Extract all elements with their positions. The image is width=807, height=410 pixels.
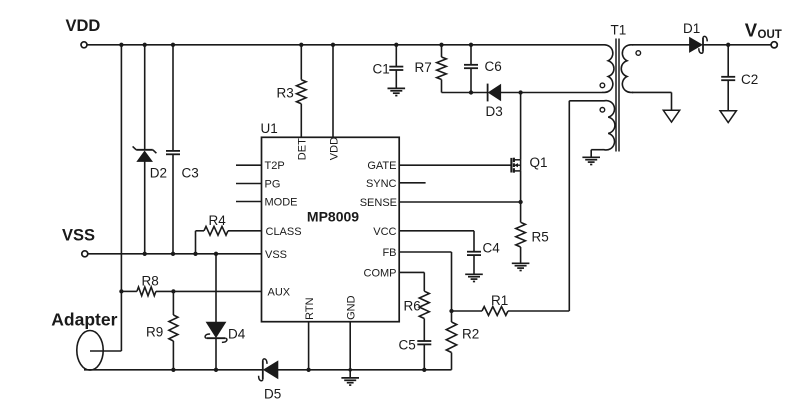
capacitor C6 xyxy=(464,45,502,93)
wire bottom rail right xyxy=(278,369,452,371)
pin label GATE xyxy=(367,160,396,172)
pin label RTN xyxy=(304,297,316,319)
capacitor C3 xyxy=(166,45,199,254)
ground under GND pin xyxy=(341,378,359,385)
svg-text:MODE: MODE xyxy=(265,197,298,209)
node AUX-adapter junction xyxy=(119,289,123,293)
resistor R1 xyxy=(452,293,570,315)
svg-text:R5: R5 xyxy=(532,230,549,245)
ground under R5 xyxy=(512,263,530,270)
wire D1 to VOUT xyxy=(703,44,771,46)
capacitor C2 xyxy=(721,45,758,111)
resistor R5 xyxy=(516,202,549,263)
svg-text:RTN: RTN xyxy=(304,297,316,319)
pin label COMP xyxy=(364,267,397,279)
node R9 top junction xyxy=(171,289,175,293)
svg-text:D1: D1 xyxy=(683,21,700,36)
diode D1 xyxy=(683,21,707,53)
diode D4 xyxy=(205,322,246,342)
wire snubber bottom xyxy=(442,92,488,94)
node D2 bottom xyxy=(143,252,147,256)
wire adapter to VDD rail xyxy=(90,45,121,351)
wire pin PG stub xyxy=(236,183,262,185)
pin label DET xyxy=(297,138,309,160)
node Q1 drain junction xyxy=(518,90,522,94)
svg-text:R3: R3 xyxy=(277,86,294,101)
ground aux winding xyxy=(582,157,600,164)
terminal VDD xyxy=(66,17,101,48)
wire zener branch xyxy=(144,45,146,254)
svg-text:VSS: VSS xyxy=(62,227,95,245)
wire pin SYNC stub xyxy=(399,182,425,184)
svg-text:D4: D4 xyxy=(228,327,246,342)
capacitor C4 xyxy=(467,241,500,275)
wire D3 to drain node xyxy=(501,92,521,94)
zener diode D2 xyxy=(133,146,167,180)
aux polarity dot xyxy=(600,108,605,113)
wire bottom rail left xyxy=(84,369,263,371)
svg-text:Adapter: Adapter xyxy=(51,310,117,330)
wire D4 to rail xyxy=(215,339,217,370)
svg-text:D5: D5 xyxy=(264,387,281,402)
svg-text:C6: C6 xyxy=(485,59,502,74)
ground under C1 xyxy=(388,88,406,95)
wire VDD rail xyxy=(87,44,602,46)
svg-text:C3: C3 xyxy=(182,166,199,181)
svg-text:R4: R4 xyxy=(209,213,227,228)
transformer T1 primary winding xyxy=(602,45,614,93)
node R7 top xyxy=(439,43,443,47)
pin label VDD xyxy=(328,137,340,160)
svg-text:CLASS: CLASS xyxy=(266,226,302,238)
svg-text:T1: T1 xyxy=(611,23,627,38)
svg-text:VSS: VSS xyxy=(265,249,287,261)
transformer T1 core xyxy=(611,23,627,152)
node C6 bottom xyxy=(469,90,473,94)
pin label PG xyxy=(265,179,281,191)
node source-sense junction xyxy=(518,200,522,204)
node C1 top xyxy=(394,43,398,47)
svg-text:SYNC: SYNC xyxy=(366,178,397,190)
svg-text:DET: DET xyxy=(297,138,309,160)
terminal VSS xyxy=(62,227,95,257)
pin label FB xyxy=(382,247,396,259)
svg-text:D3: D3 xyxy=(486,104,503,119)
wire secondary top to D1 xyxy=(632,44,690,46)
transformer T1 aux winding xyxy=(602,101,615,150)
svg-text:COMP: COMP xyxy=(364,267,397,279)
wire RTN pin xyxy=(308,322,310,370)
resistor R9 xyxy=(146,291,178,369)
pin label SENSE xyxy=(360,197,397,209)
wire secondary bottom xyxy=(632,92,672,110)
node C3 top xyxy=(171,43,175,47)
svg-text:R8: R8 xyxy=(142,274,159,289)
node FB divider junction xyxy=(449,309,453,313)
node C3 bottom xyxy=(171,252,175,256)
diode D3 xyxy=(486,84,503,119)
wire FB pin xyxy=(399,252,451,311)
wire Q1 drain xyxy=(520,93,522,160)
wire drain node to primary xyxy=(521,92,602,94)
pin label T2P xyxy=(265,160,285,172)
node VDD-adapter junction xyxy=(119,43,123,47)
svg-text:Q1: Q1 xyxy=(530,155,548,170)
wire AUX left xyxy=(121,290,136,292)
node C5 bottom xyxy=(422,368,426,372)
wire aux top feedback xyxy=(569,101,602,311)
wire SENSE xyxy=(399,201,520,203)
svg-text:R6: R6 xyxy=(404,299,421,314)
node D4 top xyxy=(214,252,218,256)
resistor R6 xyxy=(404,291,430,318)
svg-text:T2P: T2P xyxy=(265,160,285,172)
svg-text:GATE: GATE xyxy=(367,160,396,172)
pin label GND xyxy=(345,295,357,320)
resistor R4 xyxy=(196,213,262,254)
pin label VCC xyxy=(373,226,396,238)
node C2 top xyxy=(726,43,730,47)
wire pin T2P stub xyxy=(236,164,262,166)
svg-text:VCC: VCC xyxy=(373,226,396,238)
resistor R7 xyxy=(415,45,447,93)
svg-text:V: V xyxy=(745,19,758,40)
node C6 top xyxy=(469,43,473,47)
svg-text:R1: R1 xyxy=(491,293,508,308)
pin label SYNC xyxy=(366,178,397,190)
node R4 to VSS rail xyxy=(193,252,197,256)
transistor Q1 xyxy=(511,155,547,173)
terminal Adapter xyxy=(51,310,117,371)
wire aux bottom xyxy=(591,150,602,158)
node D2 top xyxy=(143,43,147,47)
svg-text:C4: C4 xyxy=(483,241,501,256)
svg-text:C1: C1 xyxy=(373,62,390,77)
svg-text:U1: U1 xyxy=(261,121,278,136)
svg-text:C5: C5 xyxy=(399,338,416,353)
wire COMP pin xyxy=(399,272,424,291)
wire D4 branch xyxy=(215,254,217,322)
svg-text:SENSE: SENSE xyxy=(360,197,397,209)
wire GND pin xyxy=(349,322,351,378)
wire VDD pin xyxy=(332,45,334,138)
ground secondary (triangle) xyxy=(663,110,679,122)
svg-text:MP8009: MP8009 xyxy=(307,209,359,225)
diode D5 xyxy=(259,359,282,402)
svg-text:D2: D2 xyxy=(150,166,167,181)
node RTN junction xyxy=(306,368,310,372)
ground under C2 (triangle) xyxy=(720,111,736,123)
node VDD pin top xyxy=(331,43,335,47)
node D4 bottom xyxy=(214,368,218,372)
wire Q1 source xyxy=(520,171,522,202)
svg-text:OUT: OUT xyxy=(758,29,782,41)
svg-text:R7: R7 xyxy=(415,60,432,75)
wire VCC pin xyxy=(399,231,474,252)
pin label MODE xyxy=(265,197,298,209)
transformer T1 secondary winding xyxy=(621,45,633,93)
op-amp U1 MP8009 body xyxy=(261,121,400,322)
resistor R2 xyxy=(446,311,479,370)
svg-text:C2: C2 xyxy=(741,72,758,87)
pin label VSS xyxy=(265,249,287,261)
wire AUX right xyxy=(156,290,262,292)
wire pin MODE stub xyxy=(236,201,262,203)
node R3 top xyxy=(299,43,303,47)
pin label CLASS xyxy=(266,226,302,238)
capacitor C1 xyxy=(373,45,404,89)
svg-text:PG: PG xyxy=(265,179,281,191)
svg-text:FB: FB xyxy=(382,247,396,259)
secondary polarity dot xyxy=(636,51,641,56)
wire GATE xyxy=(399,164,511,166)
terminal VOUT xyxy=(745,19,782,48)
svg-text:GND: GND xyxy=(345,295,357,320)
svg-text:R2: R2 xyxy=(462,327,479,342)
svg-text:R9: R9 xyxy=(146,325,163,340)
svg-text:AUX: AUX xyxy=(268,286,291,298)
svg-text:VDD: VDD xyxy=(328,137,340,160)
node R9 bottom xyxy=(171,368,175,372)
resistor R8 xyxy=(137,274,159,296)
node GND junction xyxy=(348,368,352,372)
primary polarity dot xyxy=(600,83,605,88)
wire VSS rail xyxy=(88,253,262,255)
svg-text:VDD: VDD xyxy=(66,17,101,35)
resistor R3 xyxy=(277,45,307,138)
capacitor C5 xyxy=(399,319,432,370)
pin label AUX xyxy=(268,286,291,298)
ground under C4 xyxy=(465,274,483,281)
